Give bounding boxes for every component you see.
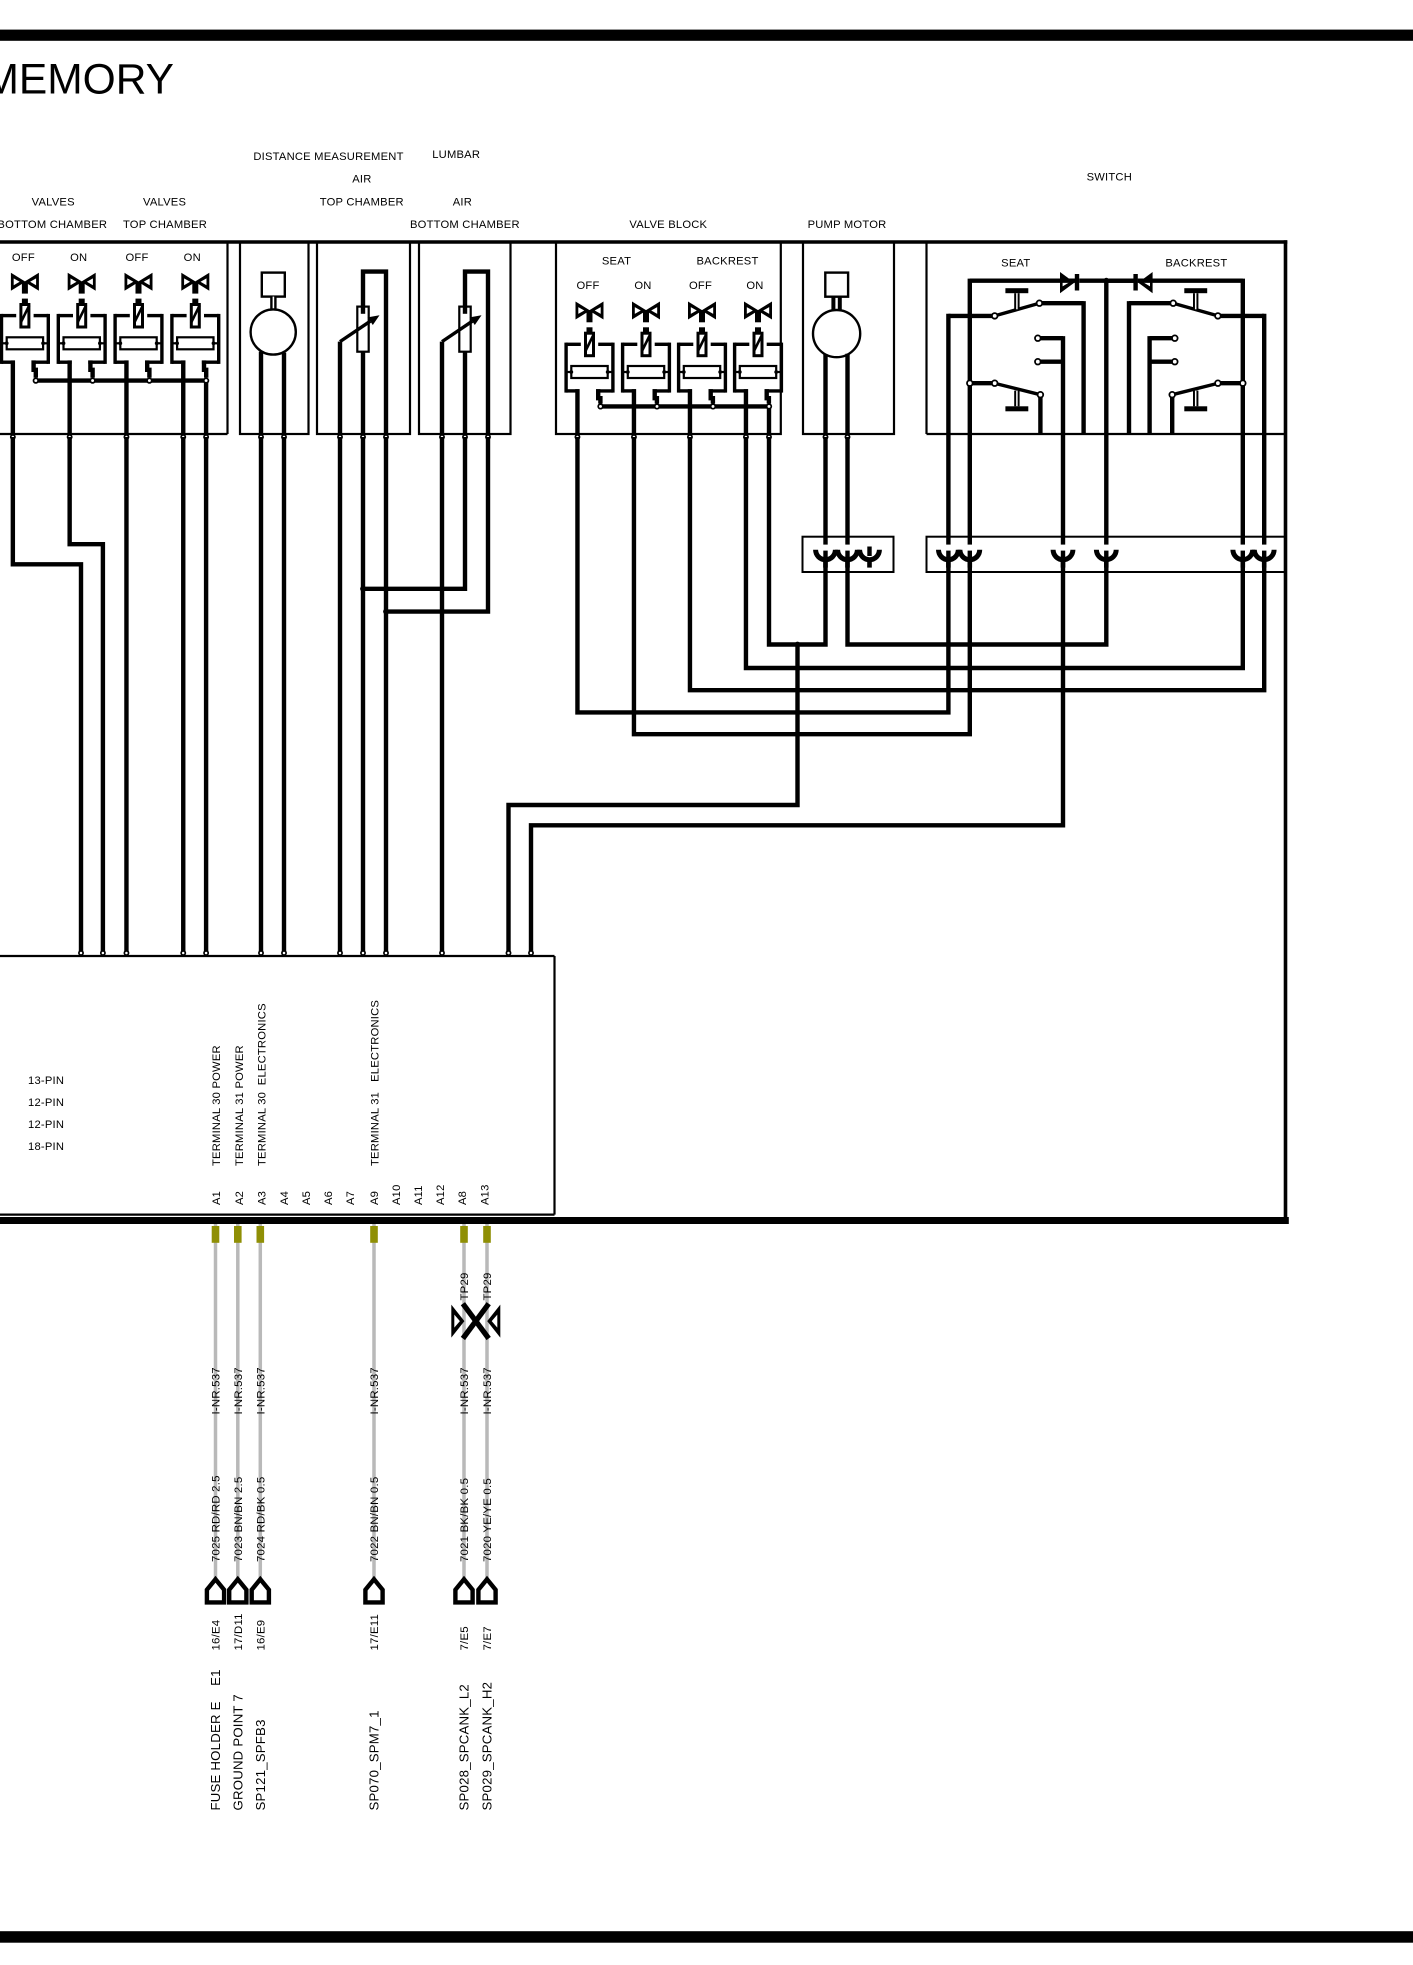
wire valve block pin3 to switch backrest rail2 [690,434,1264,690]
wire lumbar mid joining air mid [365,437,465,589]
svg-text:SP028_SPCANK_L2: SP028_SPCANK_L2 [457,1684,472,1810]
svg-text:I-NR.537: I-NR.537 [256,1367,268,1414]
svg-text:ON: ON [70,252,87,264]
svg-text:A2: A2 [234,1191,246,1205]
junction lumbar mid / air mid [360,586,366,592]
connector symbol at 17/E11 [365,1579,382,1602]
svg-text:OFF: OFF [125,252,148,264]
svg-text:A13: A13 [480,1184,492,1205]
wire distance sensor left to control unit [259,437,263,952]
connector X1 pin 3 arrow [867,545,873,551]
wire valve Y2 to control unit [70,437,103,952]
svg-text:VALVE BLOCK: VALVE BLOCK [629,219,707,231]
air top chamber sensor B2 (potentiometer) [340,272,386,437]
svg-text:BACKREST: BACKREST [696,256,758,268]
top title bar [0,30,1413,41]
connector X1 pin 3 stub [867,547,871,557]
pump motor M1 [825,273,848,297]
svg-text:A9: A9 [369,1191,381,1205]
switch SEAT half S1 [948,272,1106,434]
svg-text:18-PIN: 18-PIN [28,1141,64,1153]
wire distance sensor right to control unit [282,437,286,952]
svg-text:ON: ON [184,252,201,264]
svg-text:A6: A6 [323,1191,335,1205]
wire valve block bus to pump motor left [769,437,826,645]
valve block box [556,242,781,434]
wire valve Y4 to control unit [181,437,185,952]
svg-text:7023 BN/BN 2.5: 7023 BN/BN 2.5 [233,1477,245,1562]
harness wire 7025 [214,1224,218,1578]
distance sensor pins [259,435,263,439]
svg-text:AIR: AIR [453,196,472,208]
svg-text:ON: ON [746,280,763,292]
control unit top entry pins [79,951,83,955]
wire air sensor mid to control unit [361,437,365,952]
harness wire 7021 [462,1224,466,1578]
svg-text:SP121_SPFB3: SP121_SPFB3 [253,1719,268,1810]
svg-text:TOP CHAMBER: TOP CHAMBER [123,219,207,231]
air top chamber sensor pins [338,435,342,439]
wire lumbar right joining air right [388,437,488,612]
wire valves bus to control unit [204,437,208,952]
valve bus (valves chamber) [36,378,206,382]
svg-text:A5: A5 [301,1191,313,1205]
svg-text:DISTANCE MEASUREMENT: DISTANCE MEASUREMENT [253,151,403,163]
svg-text:SP029_SPCANK_H2: SP029_SPCANK_H2 [480,1682,495,1811]
svg-text:7020 YE/YE 0.5: 7020 YE/YE 0.5 [482,1478,494,1562]
switch box [925,242,927,434]
svg-text:VALVES: VALVES [143,196,186,208]
wire pump motor right to switch centre [848,281,1107,645]
junction lumbar right / air right [383,609,389,615]
svg-text:ON: ON [634,280,651,292]
svg-text:I-NR.537: I-NR.537 [211,1367,223,1414]
connector X2 pin 4 arrow [1103,545,1109,551]
section top rail [0,240,1287,244]
wire valve Y1 to control unit A-pin [13,437,81,952]
connector symbol at 16/E9 [252,1579,269,1602]
valve block bottom pins [575,435,579,439]
harness wire 7022 [372,1224,376,1578]
svg-text:I-NR.537: I-NR.537 [369,1367,381,1414]
svg-text:FUSE HOLDER E E1: FUSE HOLDER E E1 [208,1669,223,1810]
twisted pair symbol [451,1305,464,1338]
wire valve block pin4 to switch backrest rail1 [746,434,1243,668]
terminal pad 7024 [257,1226,265,1243]
svg-text:13-PIN: 13-PIN [28,1075,64,1087]
connector X1 pin 1 arrow [823,545,829,551]
connector X2 pin 6 arrow [1261,545,1267,551]
wire valve Y3 to control unit [124,437,128,952]
wire air sensor right to control unit [384,437,388,952]
connector strip X2 (switch) [927,537,1286,572]
terminal pad 7020 [483,1226,491,1243]
bottom ground bar [0,1931,1413,1943]
svg-text:17/E11: 17/E11 [369,1614,381,1651]
terminal pad 7025 [212,1226,220,1243]
connector X2 pin 5 arrow [1240,545,1246,551]
svg-text:TP29: TP29 [459,1272,471,1300]
svg-text:A8: A8 [457,1191,469,1205]
svg-text:SEAT: SEAT [1001,257,1030,269]
switch rail junction node [1106,279,1135,283]
connector symbol at 7/E7 [478,1579,495,1602]
svg-text:I-NR.537: I-NR.537 [233,1367,245,1414]
svg-text:BACKREST: BACKREST [1165,257,1227,269]
junction pump feed / control unit branch [795,642,801,648]
valves boxes outline (bottom+edges) [0,433,228,435]
wire valve block pin2 to switch seat rail1 [634,434,970,734]
connector symbol at 7/E5 [455,1579,472,1602]
wire switch F-contacts to control unit [531,434,1063,952]
svg-text:VALVES: VALVES [32,196,75,208]
terminal pad 7022 [370,1226,378,1243]
svg-text:A11: A11 [413,1185,425,1205]
svg-text:16/E4: 16/E4 [211,1620,223,1651]
pump motor pins [823,435,827,439]
svg-text:OFF: OFF [689,280,712,292]
switch BACKREST half S2 (mirrored) [1106,272,1264,434]
svg-text:OFF: OFF [12,252,35,264]
svg-text:A4: A4 [279,1191,291,1205]
svg-text:A7: A7 [345,1191,357,1205]
pump motor box [803,242,894,434]
svg-text:BOTTOM CHAMBER: BOTTOM CHAMBER [410,219,520,231]
svg-text:12-PIN: 12-PIN [28,1119,64,1131]
control unit box A1 [0,955,555,957]
svg-text:TP29: TP29 [482,1272,494,1300]
svg-text:TERMINAL 31 POWER: TERMINAL 31 POWER [234,1045,246,1166]
main bus bar [0,1217,1289,1224]
lumbar air bottom chamber box [419,242,511,434]
svg-text:7024 RD/BK 0.5: 7024 RD/BK 0.5 [256,1477,268,1562]
svg-text:16/E9: 16/E9 [256,1620,268,1651]
wire lumbar wiper to control unit [440,437,444,952]
svg-text:TERMINAL 30 ELECTRONICS: TERMINAL 30 ELECTRONICS [256,1003,268,1166]
valve block bus [601,404,770,408]
lumbar sensor pins [440,435,444,439]
distance measurement box [240,242,309,434]
svg-text:AIR: AIR [352,174,371,186]
svg-text:MEMORY: MEMORY [0,57,174,104]
terminal pad 7021 [460,1226,468,1243]
valves box bottom pins [11,435,15,439]
connector X2 pin 1 arrow [945,545,951,551]
svg-text:SP070_SPM7_1: SP070_SPM7_1 [367,1710,382,1810]
connector X1 pin 2 arrow [845,545,851,551]
svg-text:7/E5: 7/E5 [459,1626,471,1650]
harness wire 7023 [236,1224,240,1578]
svg-text:7/E7: 7/E7 [482,1626,494,1650]
svg-text:I-NR.537: I-NR.537 [482,1367,494,1414]
svg-text:17/D11: 17/D11 [233,1613,245,1650]
wire junction to control unit (terminal 30) [509,645,798,953]
connector strip X1 (pump) [803,537,894,572]
svg-text:LUMBAR: LUMBAR [432,149,480,161]
lumbar air bottom chamber sensor B3 (potentiometer) [442,272,488,437]
svg-text:TERMINAL 31 ELECTRONICS: TERMINAL 31 ELECTRONICS [369,1000,381,1166]
harness wire 7024 [259,1224,263,1578]
svg-text:TERMINAL 30 POWER: TERMINAL 30 POWER [211,1045,223,1166]
svg-text:OFF: OFF [576,280,599,292]
air top chamber box [317,242,410,434]
wire valve block pin1 to switch seat rail2 [577,434,948,712]
svg-text:SWITCH: SWITCH [1087,172,1132,184]
harness wire 7020 [485,1224,489,1578]
svg-text:I-NR.537: I-NR.537 [459,1367,471,1414]
outer box right edge [1284,240,1288,1220]
svg-text:7022 BN/BN 0.5: 7022 BN/BN 0.5 [369,1477,381,1562]
svg-text:A12: A12 [435,1184,447,1205]
svg-text:SEAT: SEAT [602,256,631,268]
distance measurement sensor B1 [262,273,285,297]
connector X2 pin 2 arrow [967,545,973,551]
connector symbol at 16/E4 [207,1579,224,1602]
svg-text:7025 RD/RD 2.5: 7025 RD/RD 2.5 [211,1475,223,1562]
wire air sensor wiper to control unit [338,437,342,952]
svg-text:A1: A1 [211,1191,223,1205]
svg-text:PUMP MOTOR: PUMP MOTOR [808,219,887,231]
connector symbol at 17/D11 [229,1579,246,1602]
svg-text:12-PIN: 12-PIN [28,1097,64,1109]
terminal pad 7023 [234,1226,242,1243]
svg-text:GROUND POINT 7: GROUND POINT 7 [230,1694,245,1810]
connector X2 pin 3 arrow [1060,545,1066,551]
svg-text:7021 BK/BK 0.5: 7021 BK/BK 0.5 [459,1478,471,1562]
svg-text:A10: A10 [391,1184,403,1205]
svg-text:A3: A3 [257,1191,269,1205]
svg-text:TOP CHAMBER: TOP CHAMBER [320,196,404,208]
svg-text:BOTTOM CHAMBER: BOTTOM CHAMBER [0,219,107,231]
